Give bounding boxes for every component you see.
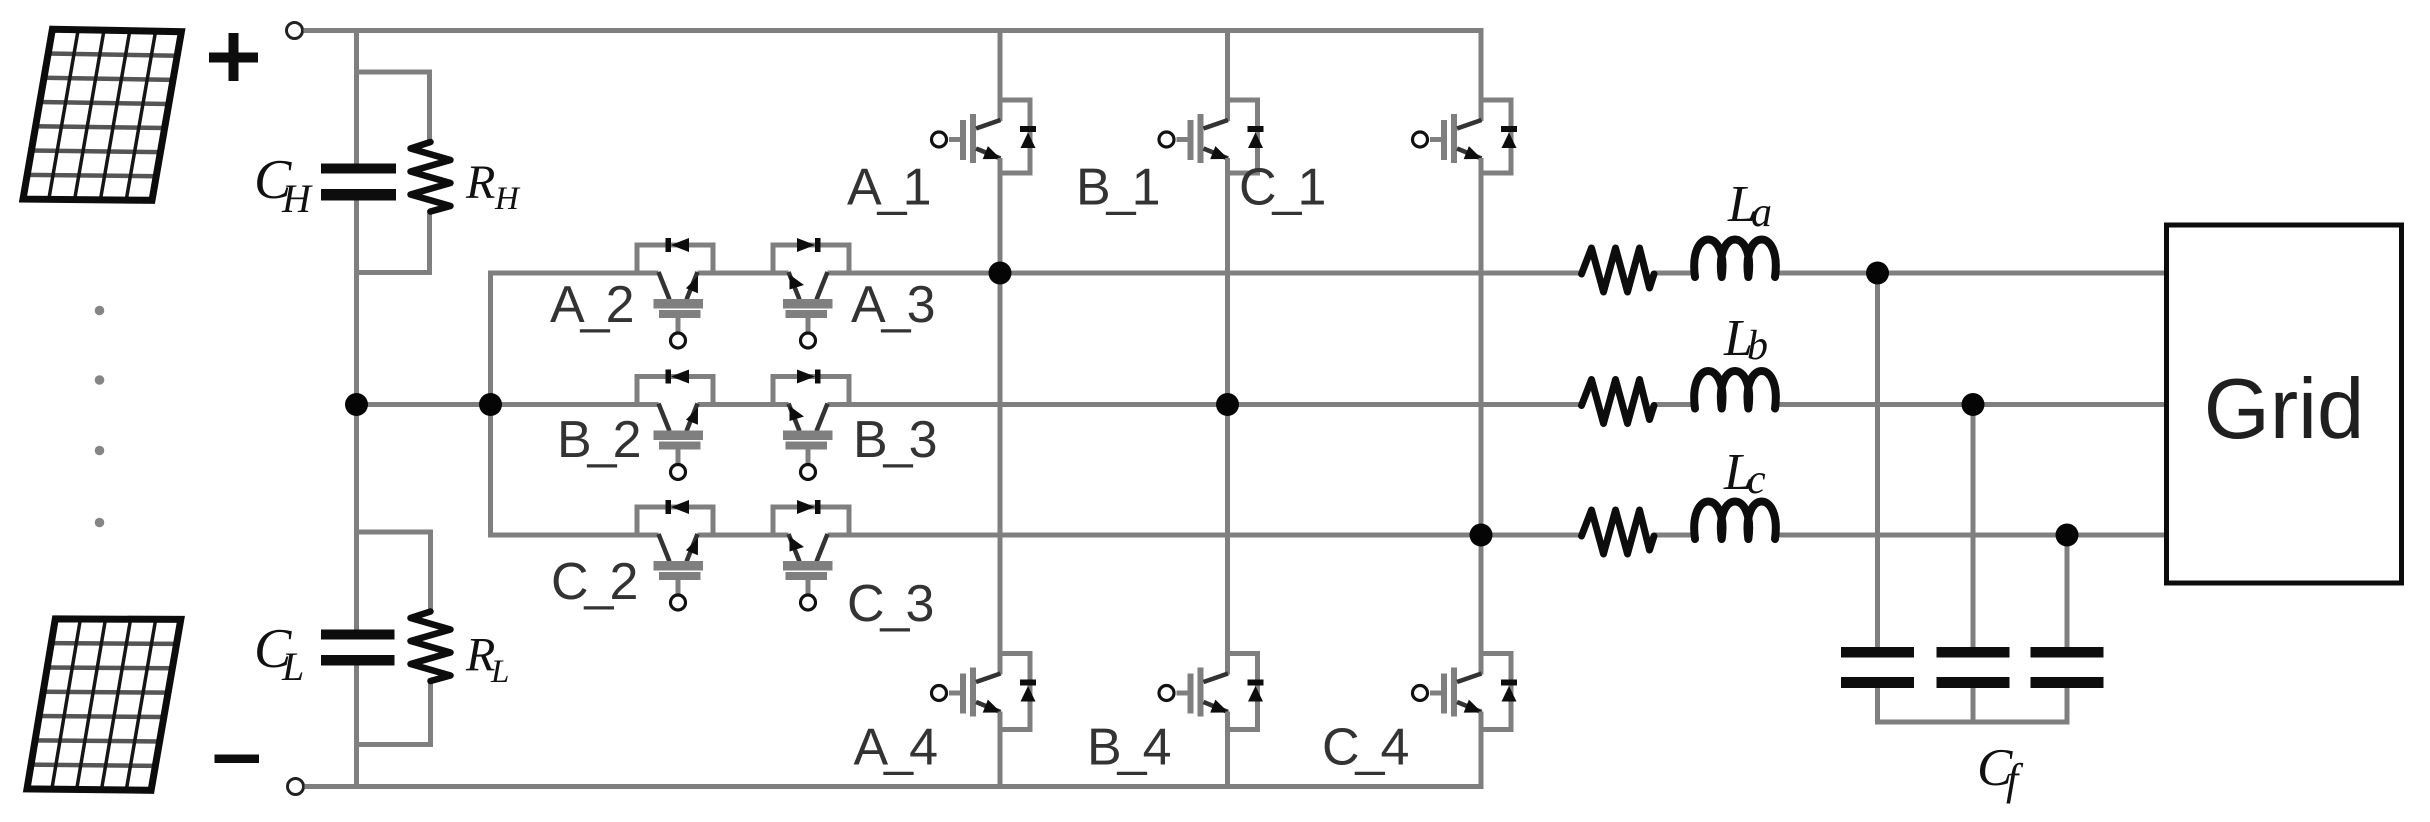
label R_L [465,629,509,691]
svg-text:H: H [281,176,313,221]
transistor A_1 [932,100,1037,173]
terminal minus [288,779,304,795]
label B_3 [853,411,936,469]
resistor filter B [1582,380,1655,424]
node filter A [1866,262,1889,285]
wire row A [491,271,2170,276]
wire leg C lower [1479,712,1484,789]
wire Cf C upper [2065,535,2070,648]
svg-text:A_4: A_4 [854,719,938,777]
node filter C [2056,524,2079,547]
svg-text:C_4: C_4 [1322,719,1408,777]
resistor filter A [1582,248,1655,292]
svg-text:B_1: B_1 [1076,159,1159,217]
svg-text:B_4: B_4 [1087,719,1171,777]
transistor C_1 [1413,100,1518,173]
node C leg [1470,524,1493,547]
label C_L [254,618,304,689]
label R_H [465,156,521,217]
wire bracket vertical [488,271,493,538]
transistor B_2 [637,370,713,480]
node A leg [989,262,1012,285]
wire R_L branch [357,532,431,745]
label B_4 [1087,719,1171,777]
node B leg [1216,393,1239,416]
label C_1 [1239,159,1324,217]
resistor R_L [411,612,451,682]
transistor A_2 [637,238,713,348]
svg-text:Grid: Grid [2204,362,2365,457]
transistor B_4 [1159,654,1264,730]
wire Cf A lower [1875,688,1880,725]
transistor A_4 [932,654,1037,730]
inductor L_a [1694,240,1776,278]
inductor L_c [1694,502,1776,540]
wire Cf bus [1875,720,2070,725]
svg-text:A_2: A_2 [550,276,633,334]
wire midpoint [357,402,491,407]
label A_4 [854,719,938,777]
svg-text:C_2: C_2 [551,553,636,611]
svg-text:c: c [1747,457,1766,503]
svg-text:C_1: C_1 [1239,159,1324,217]
terminal plus [287,23,303,39]
node midpoint [345,393,368,416]
wire leg C middle [1479,158,1484,675]
svg-text:L: L [490,654,509,690]
label C_3 [847,575,932,633]
wire DC bus vertical [354,31,359,787]
node filter B [1962,393,1985,416]
label C_f [1977,739,2024,804]
label L_c [1723,444,1766,503]
wire row B [491,402,2170,407]
inductor L_b [1694,371,1776,409]
node bracket [479,393,502,416]
svg-text:a: a [1751,190,1772,236]
wire Cf C lower [2065,688,2070,725]
wire leg A upper [998,29,1003,122]
resistor R_H [411,142,451,212]
label L_b [1723,310,1768,369]
capacitor Cf C [2031,647,2104,688]
PV array top [23,29,181,200]
transistor C_3 [773,500,849,610]
svg-text:A_1: A_1 [847,159,930,217]
label L_a [1727,176,1772,236]
label C_2 [551,553,636,611]
svg-text:B_3: B_3 [853,411,936,469]
capacitor C_L [321,630,395,666]
wire leg A middle [998,158,1003,675]
svg-text:B_2: B_2 [557,411,640,469]
wire leg B lower [1225,712,1230,789]
wire leg B middle [1225,158,1230,675]
wire R_H branch [357,72,430,273]
label C_4 [1322,719,1408,777]
wire Cf A upper [1875,273,1880,648]
label A_2 [550,276,633,334]
transistor B_3 [773,370,849,480]
PV array bottom [27,619,181,790]
minus sign [215,755,260,764]
svg-text:R: R [465,156,495,209]
label C_H [254,149,313,221]
svg-text:b: b [1747,323,1768,369]
transistor B_1 [1159,100,1264,173]
label A_3 [851,276,934,334]
wire top rail [304,28,1484,33]
label B_2 [557,411,640,469]
svg-text:L: L [281,644,304,689]
svg-text:A_3: A_3 [851,276,934,334]
ellipsis dots [95,306,105,528]
transistor A_3 [773,238,849,348]
label Grid [2204,362,2365,457]
wire Cf B upper [1971,405,1976,649]
label A_1 [847,159,930,217]
label B_1 [1076,159,1159,217]
wire leg B upper [1225,29,1230,122]
wire Cf B lower [1971,688,1976,725]
svg-text:f: f [2006,755,2024,804]
wire row C [491,533,2170,538]
plus sign [209,33,258,81]
wire leg A lower [998,712,1003,789]
svg-text:H: H [494,181,521,217]
transistor C_2 [637,500,713,610]
svg-text:C_3: C_3 [847,575,932,633]
resistor filter C [1582,510,1655,554]
transistor C_4 [1413,654,1518,730]
wire leg C upper [1479,29,1484,122]
capacitor Cf B [1937,647,2010,688]
grid box [2167,225,2402,583]
capacitor Cf A [1841,647,1914,688]
wire bottom rail [305,784,1484,789]
capacitor C_H [321,164,396,201]
